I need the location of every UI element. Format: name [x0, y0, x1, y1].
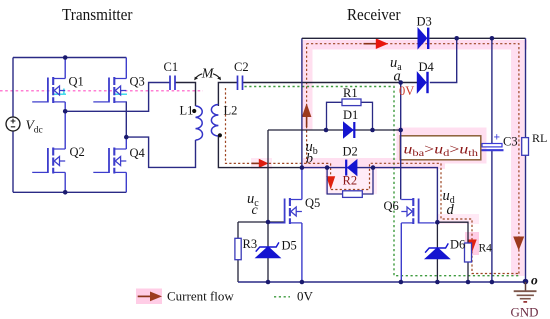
inductor L1 — [196, 106, 203, 140]
wire: C1 to L1 top — [175, 83, 196, 107]
dc source Vdc — [6, 117, 20, 131]
diode D3 — [418, 28, 428, 49]
junction: R1-D1 right node — [370, 128, 375, 133]
svg-text:0V: 0V — [297, 289, 314, 304]
wire: C2 to node a and D4 anode — [243, 82, 418, 84]
wire: transmitter left rail — [12, 58, 14, 193]
comparison condition box — [400, 136, 481, 160]
wire: Q3 source to leg B midpoint — [125, 101, 127, 137]
current flow arrow on top rail — [364, 38, 389, 49]
wire: receiver top rail with D3 — [302, 37, 526, 39]
pink highlight band: L2 row arrow — [251, 158, 272, 169]
junction: R1-D1 left node — [324, 128, 329, 133]
wire: L2 bottom to node b — [218, 136, 302, 168]
mutual coupling M arrows — [196, 74, 202, 78]
transistor Q4 — [93, 137, 126, 192]
pink highlight band: d row — [437, 214, 479, 224]
diode D2 — [346, 160, 357, 176]
current flow red dashed path: R2 detour to node d and R4 — [331, 163, 519, 273]
wire: right side rail to RL and o node — [525, 38, 527, 282]
node b junction dot — [300, 165, 305, 170]
wire: leg A midpoint to C1 — [65, 83, 170, 112]
svg-text:R2: R2 — [343, 174, 358, 188]
svg-text:Q6: Q6 — [384, 199, 399, 213]
svg-text:R1: R1 — [343, 86, 358, 100]
junction: leg A midpoint node — [63, 109, 68, 114]
legend 0V dotted sample — [274, 296, 290, 298]
svg-text:D1: D1 — [343, 108, 358, 122]
svg-text:C3: C3 — [503, 135, 518, 149]
svg-text:c: c — [252, 203, 259, 218]
svg-text:o: o — [531, 273, 538, 288]
wire: leg B midpoint to L1 bottom — [126, 137, 195, 167]
svg-text:C2: C2 — [234, 60, 249, 74]
node d junction dot — [435, 220, 440, 225]
L2 polarity dot — [218, 133, 222, 137]
junction: leg B midpoint node — [124, 135, 129, 140]
svg-text:Q3: Q3 — [130, 75, 145, 89]
junction: Q2 source on bottom rail — [63, 190, 68, 195]
wire: L2 top to C2 — [218, 83, 237, 107]
pink highlight band: R4 arrow — [465, 232, 479, 255]
wire: R2 branch — [327, 168, 373, 194]
load resistor RL — [522, 138, 529, 156]
pink highlight band: top rail current path — [303, 40, 527, 50]
wire: node c riser and D1 row — [268, 130, 401, 222]
wire: node d row to R4 — [437, 222, 468, 282]
svg-text:Current flow: Current flow — [167, 289, 234, 304]
junction: C3 branch on top rail — [490, 36, 495, 41]
capacitor C2 — [238, 76, 243, 91]
wire: transmitter top rail — [13, 57, 126, 59]
svg-text:D3: D3 — [417, 15, 432, 29]
svg-text:Q5: Q5 — [305, 196, 320, 210]
wire: R3 branch — [237, 222, 239, 282]
junction: R2-D2 right node — [371, 165, 376, 170]
current flow arrow on L2 row — [252, 159, 269, 168]
pink highlight band: right side current path — [511, 43, 525, 276]
current flow arrow down through R4 — [467, 240, 476, 253]
wire: node b row to node d drop — [302, 168, 438, 223]
svg-text:Q4: Q4 — [130, 146, 146, 160]
svg-text:Receiver: Receiver — [347, 5, 401, 24]
svg-text:+: + — [494, 132, 501, 144]
pink highlight band: legend arrow — [136, 289, 162, 305]
current flow red dashed path: L2 bottom to node b — [226, 88, 331, 163]
wire: node b riser to receiver top rail — [301, 38, 303, 167]
0V magenta dashed line (transmitter) — [0, 90, 203, 92]
svg-text:D6: D6 — [450, 238, 465, 252]
wire: node c row — [238, 221, 285, 223]
wire: C3 branch — [491, 38, 493, 282]
svg-text:Vdc: Vdc — [26, 118, 43, 136]
svg-text:GND: GND — [511, 306, 539, 319]
transistor Q5 — [269, 168, 302, 282]
svg-text:M: M — [201, 67, 215, 82]
cyan highlight at Q1 source — [53, 89, 67, 95]
junction: D5 on bottom rail — [266, 280, 271, 285]
wire: node a vertical to Q6 drain — [400, 83, 402, 200]
current flow arrow down through R2 branch — [326, 176, 335, 189]
svg-text:d: d — [447, 202, 455, 218]
node a junction dot — [398, 80, 403, 85]
svg-text:0V: 0V — [399, 84, 414, 98]
transistor Q3 — [93, 58, 126, 104]
resistor R1 — [342, 99, 361, 106]
svg-text:Q2: Q2 — [70, 145, 85, 159]
wire: receiver bottom rail — [238, 281, 526, 283]
pink highlight band: R2 detour — [325, 169, 377, 194]
transistor Q6 (mirrored) — [401, 198, 437, 282]
svg-text:D2: D2 — [343, 145, 358, 159]
ground symbol GND — [514, 282, 537, 302]
cyan highlight at Q3 source — [114, 93, 127, 95]
resistor R3 — [235, 238, 241, 259]
zener diode D6 — [425, 243, 449, 258]
node o dot — [523, 279, 529, 285]
node c junction dot — [266, 220, 271, 225]
current flow arrow up node b riser — [302, 103, 312, 127]
svg-text:C1: C1 — [164, 60, 179, 74]
svg-text:Q1: Q1 — [69, 75, 84, 89]
current flow red dashed path: node b riser and top rail — [307, 44, 519, 274]
L1 polarity dot — [192, 109, 196, 113]
capacitor C3 — [482, 144, 504, 151]
wire: transmitter bottom rail — [13, 191, 126, 193]
diode D4 — [417, 72, 427, 93]
wire: D4 cathode to top rail riser — [430, 38, 457, 82]
current flow arrow down right side — [513, 237, 524, 251]
0V green dotted path (receiver) — [245, 87, 519, 276]
zener diode D5 — [256, 242, 280, 257]
junction: Q5 source on bottom rail — [300, 280, 305, 285]
junction: D4 cathode riser on top rail — [454, 36, 459, 41]
resistor R4 — [465, 243, 472, 262]
svg-text:L1: L1 — [180, 104, 194, 118]
svg-text:D5: D5 — [282, 239, 297, 253]
svg-text:R4: R4 — [479, 243, 493, 255]
pink highlight band: node b riser current path — [302, 44, 313, 130]
junction: D6 on bottom rail — [435, 280, 440, 285]
transistor Q1 — [32, 58, 65, 112]
pink highlight band: b row to d — [303, 158, 445, 169]
svg-text:a: a — [394, 69, 401, 85]
capacitor C1 — [170, 76, 175, 91]
legend current flow arrow — [138, 292, 162, 302]
junction: Q6 source on bottom rail — [399, 280, 404, 285]
svg-text:RL: RL — [532, 131, 547, 145]
junction: C3 on bottom rail — [490, 280, 495, 285]
svg-text:b: b — [306, 152, 313, 167]
svg-text:Transmitter: Transmitter — [62, 5, 133, 24]
wire: D6 vertical — [436, 222, 438, 282]
svg-text:D4: D4 — [419, 60, 435, 74]
wire: R1 branch — [327, 102, 373, 130]
svg-text:R3: R3 — [243, 237, 258, 251]
svg-text:L2: L2 — [224, 104, 238, 118]
resistor R2 — [343, 191, 363, 198]
transistor Q2 — [32, 111, 65, 192]
junction: Q1 drain on top rail — [63, 55, 68, 60]
diode D1 — [344, 122, 355, 138]
wire: D5 vertical — [267, 222, 269, 282]
inductor L2 — [211, 105, 218, 137]
junction: D1 row meets node a riser — [398, 128, 403, 133]
pink highlight band: around comparison box — [397, 128, 487, 164]
junction: R2-D2 left node — [325, 165, 330, 170]
junction: R4 on bottom rail — [466, 280, 471, 285]
